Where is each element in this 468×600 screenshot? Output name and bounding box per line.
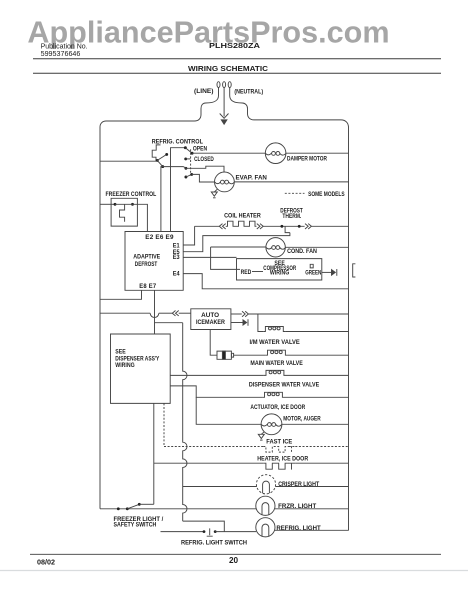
- wire icemaker out arrow: [231, 322, 243, 324]
- wire red link: [252, 271, 263, 273]
- dashed wire some models: [285, 192, 305, 194]
- svg-text:WIRING: WIRING: [270, 271, 290, 277]
- wire chevrons to icemaker box: [179, 312, 191, 314]
- connector chevrons coil heater left: [219, 224, 225, 229]
- adaptive defrost control box: [125, 232, 183, 291]
- left bus wire (LINE): [99, 127, 101, 509]
- node safety switch upper: [138, 503, 141, 506]
- node freezer control left: [114, 203, 117, 206]
- node therm left: [280, 225, 283, 228]
- wire fuse to main valve coil: [234, 354, 266, 356]
- wire neutral prong into right top border: [230, 88, 349, 128]
- wire dispenser feed lower: [153, 403, 155, 504]
- wire bus to refrig control: [100, 160, 156, 162]
- svg-text:WIRING SCHEMATIC: WIRING SCHEMATIC: [188, 64, 269, 73]
- solenoid actuator ice door: [262, 392, 284, 397]
- node OPEN contact: [184, 146, 187, 149]
- svg-text:REFRIG. LIGHT: REFRIG. LIGHT: [276, 526, 321, 532]
- svg-text:FAST ICE: FAST ICE: [266, 440, 292, 446]
- connector bracket right of compressor: [353, 264, 356, 277]
- ground arrow from plug: [223, 88, 225, 117]
- vertical feed wire B with hops: [155, 322, 183, 324]
- svg-text:CLOSED: CLOSED: [194, 157, 214, 163]
- header rule upper: [33, 58, 441, 60]
- wire damper to bus: [286, 152, 349, 154]
- switch blade freezer safety: [127, 504, 139, 509]
- switch blade lower pole: [186, 174, 192, 177]
- dashed wire fast ice to bus: [295, 446, 348, 448]
- wire bus to icemaker row: [100, 312, 150, 314]
- switch blade OPEN: [185, 148, 192, 154]
- wire main valve to bus: [288, 354, 349, 356]
- wire bus to freezer control: [100, 203, 115, 205]
- wire heater to bus: [295, 462, 348, 464]
- switch blade refrig upper: [157, 154, 166, 160]
- node safety switch mid: [126, 507, 129, 510]
- connector chevrons therm right: [305, 224, 311, 229]
- svg-text:08/02: 08/02: [37, 558, 55, 567]
- wire E1 to coil heater: [183, 226, 194, 245]
- node freezer control right: [131, 203, 134, 206]
- svg-text:FREEZER CONTROL: FREEZER CONTROL: [106, 192, 157, 198]
- svg-text:THERM.: THERM.: [282, 214, 301, 220]
- wire switch stub left: [161, 531, 205, 533]
- wire switch to refrig lamp: [215, 531, 256, 533]
- wire defrost therm row: [263, 225, 304, 227]
- wire coil heater left: [195, 225, 220, 227]
- svg-text:I/M WATER VALVE: I/M WATER VALVE: [250, 340, 300, 346]
- svg-text:DISPENSER WATER VALVE: DISPENSER WATER VALVE: [249, 382, 319, 388]
- wire lower pole a stub: [184, 166, 225, 172]
- node damper feed: [191, 152, 194, 155]
- ground at auger motor: [261, 432, 264, 435]
- compressor wiring box: [237, 259, 322, 280]
- wire therm to bus: [311, 225, 348, 227]
- svg-text:RED: RED: [241, 270, 252, 276]
- connector chevrons coil heater right: [257, 224, 263, 229]
- wire evap fan feed: [192, 174, 215, 182]
- svg-text:HEATER, ICE DOOR: HEATER, ICE DOOR: [257, 457, 308, 463]
- wire green to ground arrow: [322, 271, 332, 273]
- wire icemaker bottom to water valve fuse: [210, 330, 217, 356]
- wire frzr light row: [100, 508, 256, 510]
- terminal mark above green: [310, 264, 313, 268]
- plug prong right: [228, 82, 231, 88]
- plug prong left: [217, 82, 220, 88]
- freezer control bellows symbol: [120, 204, 125, 222]
- wire freezer control contacts: [115, 203, 133, 205]
- svg-text:DISPENSER ASS'Y: DISPENSER ASS'Y: [115, 356, 159, 362]
- lamp crisper light: [256, 475, 275, 494]
- svg-text:E2 E6 E9: E2 E6 E9: [145, 235, 174, 241]
- dashed mechanical linkage: [190, 149, 192, 175]
- dispenser assy box: [111, 334, 171, 403]
- svg-text:MOTOR, AUGER: MOTOR, AUGER: [283, 417, 321, 423]
- resistor coil heater: [226, 221, 257, 226]
- svg-text:SEE: SEE: [115, 350, 125, 356]
- svg-text:5995376646: 5995376646: [41, 51, 81, 58]
- wire dispenser to dispenser valve row: [170, 374, 264, 376]
- svg-text:DAMPER MOTOR: DAMPER MOTOR: [287, 156, 328, 162]
- svg-text:AUTO: AUTO: [201, 313, 219, 319]
- motor damper: [265, 143, 286, 164]
- solenoid main water valve: [265, 350, 287, 355]
- switch blade refrig lower: [157, 160, 162, 166]
- wire actuator to bus: [285, 396, 349, 398]
- auto icemaker box: [191, 309, 231, 330]
- svg-text:20: 20: [229, 556, 239, 565]
- lamp frzr light: [256, 496, 275, 515]
- footer rule: [30, 553, 441, 555]
- node refrig blade lower: [161, 165, 164, 168]
- wire icemaker top to bus: [248, 313, 348, 315]
- wire E8 to bus: [100, 290, 142, 299]
- motor cond fan: [266, 238, 285, 257]
- wire fast ice riser from dispenser box: [163, 403, 165, 446]
- resistor fast ice dashed: [263, 447, 295, 453]
- wire I/M valve to bus: [285, 331, 348, 333]
- svg-text:E8 E7: E8 E7: [139, 284, 156, 290]
- svg-text:REFRIG. LIGHT SWITCH: REFRIG. LIGHT SWITCH: [181, 541, 247, 547]
- node refrig switch left: [203, 530, 206, 533]
- ground at evap fan: [214, 189, 217, 192]
- wire E4 to bus: [183, 274, 348, 289]
- wire icemaker out top: [231, 313, 242, 315]
- wire cond fan row: [211, 246, 266, 248]
- plug prong middle: [223, 82, 226, 88]
- refrig light switch plunger: [207, 528, 213, 536]
- svg-text:DEFROST: DEFROST: [135, 262, 158, 268]
- resistor heater ice door: [263, 463, 295, 469]
- wire evap fan to bus: [234, 181, 348, 183]
- refrig control sensing bulb: [152, 145, 160, 161]
- svg-text:ACTUATOR, ICE DOOR: ACTUATOR, ICE DOOR: [250, 405, 305, 411]
- svg-text:PLHS280ZA: PLHS280ZA: [209, 43, 260, 50]
- lamp refrig light: [256, 518, 275, 537]
- wire branch to I/M valve: [258, 314, 263, 332]
- svg-text:COND. FAN: COND. FAN: [287, 249, 317, 255]
- svg-text:OPEN: OPEN: [193, 146, 207, 152]
- node refrig control pivot: [156, 159, 159, 162]
- wire crisper to bus: [275, 486, 348, 488]
- wire hop over E7 riser: [150, 313, 159, 317]
- wire E6 riser to lower pole: [161, 167, 184, 232]
- svg-text:ICEMAKER: ICEMAKER: [196, 320, 226, 326]
- wire dispenser to actuator row: [170, 386, 262, 397]
- wire E9 riser to OPEN contact: [171, 148, 186, 232]
- svg-text:E4: E4: [173, 272, 180, 278]
- svg-text:Publication No.: Publication No.: [41, 44, 88, 51]
- node lower pole a: [184, 167, 187, 170]
- wire safety switch to dispenser feed: [139, 503, 154, 505]
- dashed wire fast ice left: [164, 446, 263, 448]
- freezer control box: [111, 198, 137, 226]
- wire E2 riser from freezer control: [133, 204, 148, 231]
- node therm right: [298, 225, 301, 228]
- wire refrig light to bus: [275, 529, 349, 531]
- wire heater ice door left: [154, 462, 263, 464]
- wire cond fan to bus: [285, 246, 348, 248]
- connector chevrons icemaker left: [172, 311, 178, 316]
- svg-text:EVAP. FAN: EVAP. FAN: [236, 176, 267, 182]
- motor auger: [261, 414, 282, 435]
- node safety switch left: [117, 507, 120, 510]
- wire cond fan riser to compressor red: [211, 247, 240, 269]
- scan artifact line: [0, 570, 468, 572]
- wire auger feed: [196, 397, 261, 424]
- svg-text:ADAPTIVE: ADAPTIVE: [133, 255, 160, 261]
- node refrig switch right: [214, 530, 217, 533]
- wire crisper light feed: [183, 486, 257, 488]
- node refrig blade upper: [165, 153, 168, 156]
- svg-text:E1: E1: [173, 243, 180, 249]
- wire hop to chevrons: [159, 312, 220, 314]
- right bus wire (NEUTRAL): [348, 128, 350, 531]
- connector chevrons icemaker right: [242, 311, 248, 316]
- wire dispenser valve to bus: [286, 374, 349, 376]
- wire damper motor row: [192, 152, 265, 154]
- defrost thermostat element: [285, 226, 290, 232]
- wire CLOSED contact stub: [186, 158, 191, 160]
- wire frzr light to bus: [275, 508, 349, 510]
- svg-text:WIRING: WIRING: [115, 363, 135, 369]
- wire auger to bus: [282, 423, 349, 425]
- svg-text:COIL HEATER: COIL HEATER: [224, 213, 261, 219]
- node lower pole b: [184, 176, 187, 179]
- svg-text:MAIN WATER VALVE: MAIN WATER VALVE: [250, 361, 302, 367]
- solenoid dispenser water valve: [264, 370, 286, 375]
- fuse water valve: [217, 351, 231, 359]
- svg-text:E3: E3: [173, 255, 180, 261]
- wire E3 to compressor box: [183, 256, 236, 258]
- svg-text:(LINE): (LINE): [194, 89, 214, 95]
- solenoid I/M water valve: [263, 327, 285, 332]
- svg-text:SOME MODELS: SOME MODELS: [308, 192, 345, 198]
- node evap feed: [190, 173, 193, 176]
- svg-text:(NEUTRAL): (NEUTRAL): [234, 90, 263, 96]
- wire E7 to dispenser assy: [154, 290, 156, 334]
- motor evap fan: [215, 172, 235, 192]
- wire E5 to defrost therm: [183, 233, 290, 252]
- header rule lower: [33, 72, 441, 74]
- node CLOSED contact: [184, 157, 187, 160]
- svg-text:GREEN: GREEN: [305, 271, 321, 277]
- wire refrig light switch feed: [183, 521, 225, 532]
- wire line prong into left top border: [100, 88, 219, 128]
- svg-text:SAFETY SWITCH: SAFETY SWITCH: [114, 523, 157, 529]
